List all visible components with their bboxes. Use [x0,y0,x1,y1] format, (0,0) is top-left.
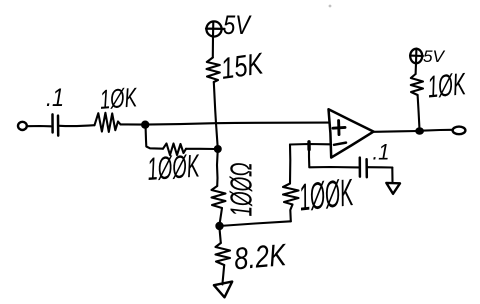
svg-text:5V: 5V [223,10,252,40]
svg-text:1ØØΩ: 1ØØΩ [224,163,259,217]
svg-text:1ØK: 1ØK [426,66,468,104]
svg-text:1ØØK: 1ØØK [297,172,356,220]
svg-text:1ØK: 1ØK [99,82,139,115]
svg-text:8.2K: 8.2K [233,237,289,276]
svg-text:1ØØK: 1ØØK [146,147,201,187]
svg-text:15K: 15K [219,47,267,86]
svg-text:.1: .1 [373,140,390,165]
svg-text:5V: 5V [423,47,446,66]
svg-text:.1: .1 [46,84,64,112]
